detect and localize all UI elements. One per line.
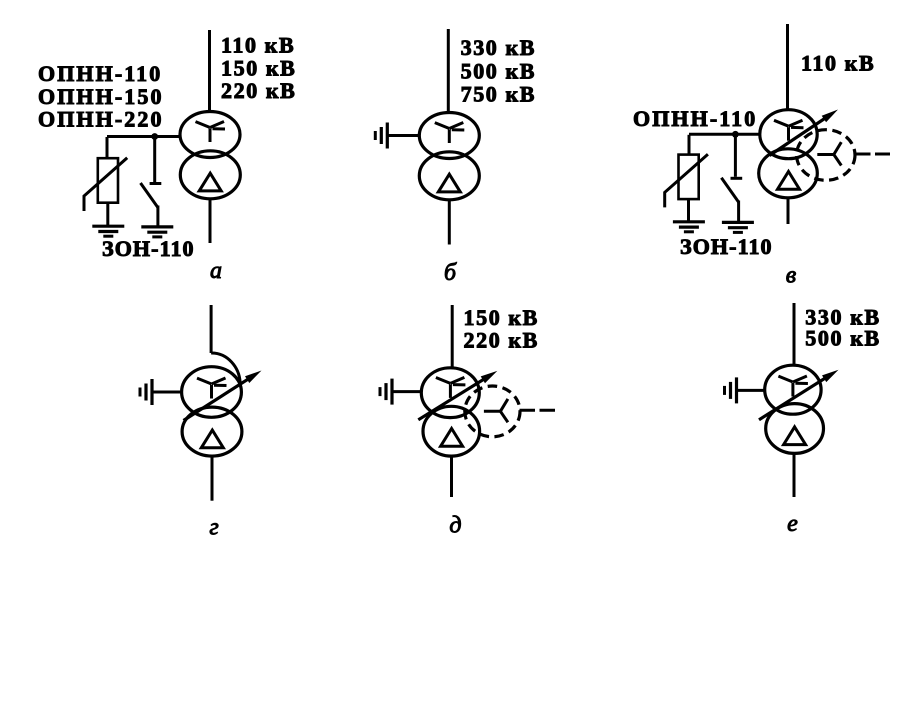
star symbol figure v [774,120,804,141]
transformer delta winding figure b [419,152,479,200]
transformer star winding figure d [421,368,479,418]
arrester branch wire figure v [688,135,691,155]
delta symbol figure b [438,174,460,192]
svg-text:110 кВ: 110 кВ [801,51,875,76]
delta symbol figure g [201,430,223,448]
svg-text:ЗОН-110: ЗОН-110 [102,236,195,261]
svg-text:е: е [787,511,798,537]
star symbol figure d [436,377,466,398]
delta symbol figure e [784,427,806,445]
voltage label 110 kV figure v [801,51,875,76]
svg-text:ОПНН-110: ОПНН-110 [38,61,162,86]
transformer star winding figure e [765,365,821,414]
LV lead figure d [450,456,453,497]
label b [444,260,457,286]
transformer delta winding figure a [180,151,240,199]
transformer star winding figure g [182,367,242,418]
svg-text:110 кВ: 110 кВ [221,33,295,58]
svg-text:в: в [786,263,796,289]
label ZON-110 figure a [102,236,195,261]
transformer star winding figure a [180,112,240,158]
star symbol figure a [196,122,226,143]
voltage labels 110/150/220 kV [221,33,296,104]
svg-text:330 кВ: 330 кВ [461,35,536,60]
star symbol figure g [197,378,227,399]
arrester branch wire figure a [106,137,109,159]
neutral wire figure b [387,134,419,137]
junction dot figure a [151,133,158,140]
label ZON-110 figure v [680,234,773,259]
arrester label OPNN-110 figure v [633,106,757,131]
tertiary star symbol figure d [484,399,508,422]
star symbol figure b [435,123,465,144]
svg-text:750 кВ: 750 кВ [461,82,536,107]
svg-text:г: г [209,515,218,541]
svg-text:ОПНН-150: ОПНН-150 [38,84,164,109]
surge arrester OPNN (varistor) figure a [84,158,127,211]
svg-text:150 кВ: 150 кВ [221,55,296,80]
transformer star winding figure v [760,110,817,159]
neutral wire figure d [392,390,423,393]
LV lead figure e [793,454,796,497]
svg-text:ОПНН-220: ОПНН-220 [38,107,164,132]
ground symbol left figure g [140,379,152,405]
label g [209,515,218,541]
transformer delta winding figure v [759,149,818,198]
LV lead figure b [448,200,451,245]
arrester lower lead figure v [687,199,690,222]
label v [786,263,796,289]
grounding switch branch wire figure a [153,137,156,183]
voltage labels 330/500/750 kV [461,35,536,107]
HV bus line figure d [451,305,454,368]
grounding switch branch wire figure v [734,134,737,177]
transformer delta winding figure g [182,407,242,456]
neutral wire figure e [737,389,766,392]
svg-text:150 кВ: 150 кВ [464,305,539,330]
ground under arrester figure a [92,226,124,236]
surge arrester OPNN (varistor) figure v [665,154,708,207]
tertiary winding (dashed) figure v [797,130,855,181]
voltage labels 150/220 kV [464,305,539,353]
regulation arrow figure d [418,371,497,420]
ground symbol left figure e [725,377,737,403]
switch lower lead figure v [737,201,740,223]
ground symbol left figure b [375,123,387,149]
neutral wire figure v [689,133,761,136]
neutral wire figure g [152,391,183,394]
transformer delta winding figure e [766,404,824,454]
svg-text:ЗОН-110: ЗОН-110 [680,234,773,259]
transformer star winding figure b [419,113,479,159]
HV bus line figure v [786,24,789,109]
delta symbol figure a [199,173,221,191]
tertiary winding (dashed) figure d [465,386,520,437]
ground under switch figure a [141,227,173,237]
label a [210,258,222,284]
svg-text:500 кВ: 500 кВ [805,326,880,351]
ground symbol left figure d [380,379,392,405]
HV bus line figure b [447,29,450,113]
arrester labels OPNN-110/150/220 [38,61,164,132]
junction dot figure v [732,131,739,138]
tertiary star symbol figure v [817,142,841,165]
svg-text:а: а [210,258,222,284]
grounding switch ZON-110 figure a [141,183,162,207]
HV bus line figure a [208,30,211,112]
svg-text:220 кВ: 220 кВ [464,327,539,352]
label e [787,511,798,537]
svg-text:220 кВ: 220 кВ [221,78,296,103]
LV lead figure v [787,198,790,224]
delta symbol figure v [778,172,800,190]
label d [449,513,461,539]
regulation arrow figure g [184,371,262,421]
neutral wire figure a [107,135,181,138]
curved lead to tap figure g [211,353,240,385]
ground under arrester figure v [673,222,705,232]
arrester lower lead figure a [106,203,109,227]
dashed tertiary lead figure d [520,409,556,412]
star symbol figure e [778,376,808,397]
voltage labels 330/500 kV [805,305,880,351]
ground under switch figure v [722,222,754,232]
HV bus line figure e [793,303,796,366]
transformer delta winding figure d [423,406,480,456]
LV lead figure g [211,456,214,501]
HV line figure g [210,305,213,353]
svg-text:б: б [444,260,457,286]
delta symbol figure d [441,429,463,447]
dashed tertiary lead figure v [856,153,891,156]
svg-text:д: д [449,513,461,539]
regulation arrow figure v [770,110,839,156]
regulation arrow figure e [759,370,839,420]
svg-text:500 кВ: 500 кВ [461,59,536,84]
switch lower lead figure a [156,206,159,228]
svg-text:ОПНН-110: ОПНН-110 [633,106,757,131]
LV lead figure a [209,199,212,244]
grounding switch ZON-110 figure v [721,178,742,202]
